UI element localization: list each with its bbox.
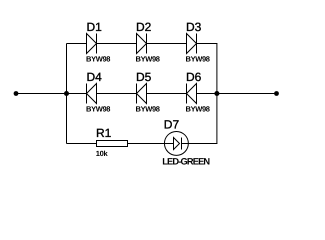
svg-text:BYW98: BYW98 [86, 104, 110, 113]
svg-text:BYW98: BYW98 [136, 104, 160, 113]
svg-text:BYW98: BYW98 [186, 54, 210, 63]
svg-text:BYW98: BYW98 [186, 104, 210, 113]
svg-text:D7: D7 [164, 118, 180, 132]
svg-text:BYW98: BYW98 [136, 54, 160, 63]
svg-text:R1: R1 [96, 126, 112, 140]
diode D2 [137, 34, 147, 54]
wire top row: D3 to corner [197, 43, 218, 45]
svg-text:D3: D3 [186, 20, 202, 34]
svg-text:D6: D6 [186, 70, 202, 84]
wire main right segment [217, 93, 277, 95]
svg-text:D1: D1 [87, 20, 103, 34]
svg-text:LED-GREEN: LED-GREEN [162, 157, 210, 167]
wire middle row: D6 to junction [197, 93, 218, 95]
node right junction [214, 91, 219, 96]
LED D7 [164, 131, 188, 155]
node left terminal [14, 91, 19, 96]
diode D1 [87, 34, 97, 54]
diode D3 [187, 34, 197, 54]
wire bottom row: R1 to D7 [128, 143, 174, 145]
wire middle row: D5 to D6 [147, 93, 187, 95]
wire main left segment [16, 93, 67, 95]
svg-text:D4: D4 [87, 70, 103, 84]
svg-text:10k: 10k [96, 149, 109, 158]
diode D5 [137, 84, 147, 104]
wire top row: D2 to D3 [147, 43, 187, 45]
node right terminal [274, 91, 279, 96]
node left junction [64, 91, 69, 96]
wire bottom row: D7 to corner [182, 143, 218, 145]
diode D4 [87, 84, 97, 104]
diode D6 [187, 84, 197, 104]
wire right vertical bus [216, 44, 218, 144]
wire middle row: junction to D4 [67, 93, 87, 95]
wire middle row: D4 to D5 [97, 93, 137, 95]
svg-text:D5: D5 [136, 70, 152, 84]
resistor R1 [97, 141, 128, 147]
svg-text:BYW98: BYW98 [86, 54, 110, 63]
wire bottom row: corner to R1 [67, 143, 97, 145]
wire left vertical bus [66, 44, 68, 144]
wire top row: D1 to D2 [97, 43, 137, 45]
svg-text:D2: D2 [136, 20, 152, 34]
wire top row: corner to D1 [67, 43, 87, 45]
